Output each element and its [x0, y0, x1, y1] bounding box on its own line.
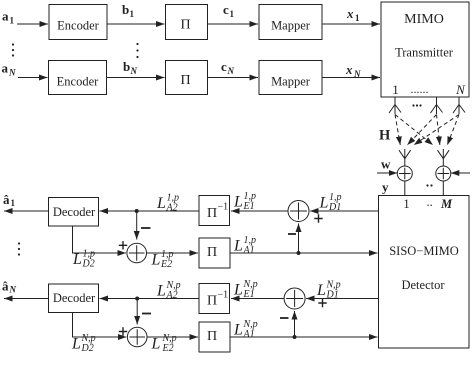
plus sign adder R1	[314, 214, 322, 222]
plus sign adder LN	[119, 327, 127, 335]
wire interleaver N to detector	[230, 336, 378, 338]
rx antenna 1	[399, 149, 411, 167]
minus sign row1 right	[288, 233, 296, 235]
node aN label	[2, 61, 17, 78]
wire aN to Encoder2	[18, 77, 48, 79]
encoder (row 1)	[49, 5, 107, 40]
svg-text:L: L	[156, 283, 166, 300]
wire junction down to adder LN	[136, 299, 138, 325]
svg-text:â: â	[3, 192, 10, 207]
ellipsis dots left column	[12, 43, 14, 56]
wire adder RN to deinterleaver N	[231, 298, 284, 300]
wire detector to adder RN	[306, 298, 379, 300]
svg-text:Π: Π	[207, 206, 217, 221]
svg-text:Encoder: Encoder	[57, 19, 99, 33]
noise adder 1	[397, 166, 412, 181]
svg-text:x: x	[345, 62, 353, 77]
label LA1 Np	[233, 319, 258, 340]
tx antenna 2	[431, 97, 443, 114]
svg-text:A2: A2	[166, 203, 178, 214]
channel dashed wire tx1-rx1	[395, 115, 400, 146]
svg-text:M: M	[440, 197, 453, 211]
node x1 label	[346, 6, 360, 23]
channel dashed wire tx2-rx2	[437, 115, 440, 146]
svg-text:L: L	[316, 282, 326, 299]
svg-text:L: L	[151, 336, 161, 353]
label LA2 Np	[156, 280, 181, 301]
ellipsis dots decoder column	[18, 242, 20, 255]
svg-text:Encoder: Encoder	[57, 75, 99, 89]
svg-text:−1: −1	[218, 290, 229, 301]
decoder (row N)	[49, 284, 99, 313]
svg-text:L: L	[233, 282, 243, 299]
svg-text:E1: E1	[243, 289, 255, 300]
wire junction up to adder R1	[298, 224, 300, 254]
minus sign rowN right	[280, 317, 289, 319]
MIMO transmitter box	[381, 2, 469, 97]
svg-text:y: y	[382, 180, 389, 195]
label LA1 1p	[233, 235, 256, 256]
svg-text:L: L	[71, 336, 81, 353]
wire deinterleaver to decoder N	[100, 298, 200, 300]
svg-text:L: L	[233, 322, 243, 339]
tx antenna dots	[412, 104, 421, 106]
noise adder 2	[436, 166, 451, 181]
interleaver fb (row 1)	[199, 238, 230, 268]
label LA2 1p	[156, 193, 179, 214]
wire c1	[208, 23, 259, 25]
wire interleaver 1 to detector	[230, 252, 378, 254]
channel dashed wire tx1-rx2	[395, 115, 433, 146]
svg-text:Π: Π	[180, 73, 190, 88]
svg-text:..: ..	[427, 195, 433, 209]
svg-text:1: 1	[403, 197, 409, 211]
node cN label	[221, 59, 235, 76]
wire x1	[322, 23, 380, 25]
rx antenna 2	[438, 149, 450, 167]
channel dashed wire tx2-rx1	[407, 115, 436, 146]
svg-text:D2: D2	[81, 343, 94, 354]
svg-text:Transmitter: Transmitter	[395, 46, 454, 60]
svg-text:Π: Π	[207, 329, 217, 344]
decoder (row 1)	[49, 198, 99, 227]
wire decoder N output	[4, 298, 49, 300]
svg-text:b: b	[123, 59, 130, 74]
wire adder R1 to deinterleaver 1	[231, 210, 288, 212]
tx antenna 1	[389, 97, 401, 114]
svg-text:â: â	[2, 279, 9, 294]
svg-text:N: N	[8, 68, 16, 78]
wire adder LN to interleaver N	[147, 336, 198, 338]
wire adder2 to detector	[442, 181, 444, 196]
svg-text:L: L	[156, 195, 166, 212]
svg-text:1: 1	[355, 13, 360, 23]
interleaver fb (row N)	[199, 322, 230, 352]
adder L1	[127, 243, 147, 263]
svg-text:1: 1	[10, 16, 15, 26]
svg-text:1: 1	[130, 9, 135, 19]
svg-text:1: 1	[11, 198, 16, 208]
plus sign adder RN	[318, 299, 326, 307]
svg-text:L: L	[233, 194, 243, 211]
wire xN	[322, 77, 380, 79]
node xN label	[345, 62, 361, 79]
junction dot rowN upper	[135, 297, 139, 301]
node c1 label	[223, 2, 235, 19]
svg-text:D2: D2	[82, 259, 95, 270]
svg-text:A1: A1	[243, 245, 255, 256]
svg-text:E2: E2	[162, 343, 174, 354]
svg-text:A2: A2	[166, 290, 178, 301]
wire w to adder1	[377, 172, 397, 174]
encoder (row N)	[49, 61, 107, 95]
wire w to adder2	[451, 172, 470, 174]
mapper (row 1)	[259, 5, 322, 40]
svg-text:Detector: Detector	[401, 278, 445, 292]
subtract adder R1	[288, 201, 309, 222]
channel dashed wire tx3-rx2	[447, 115, 459, 146]
plus sign adder L1	[119, 241, 127, 249]
svg-text:Decoder: Decoder	[53, 291, 96, 305]
wire a1 to Encoder1	[17, 23, 48, 25]
junction dot row1 lower	[297, 251, 301, 255]
svg-text:Decoder: Decoder	[53, 205, 96, 219]
ellipsis dots b column	[136, 43, 138, 58]
label LD2 1p	[72, 249, 95, 270]
deinterleaver (row 1)	[199, 196, 230, 226]
svg-text:E1: E1	[243, 201, 255, 212]
wire junction down to adder L1	[136, 211, 138, 240]
wire deinterleaver to decoder 1	[100, 210, 200, 212]
node a1 label	[2, 9, 15, 26]
label LD1 1p	[319, 192, 342, 213]
tx antenna 3	[453, 97, 465, 114]
wire decoder tap to adder LN	[73, 313, 127, 338]
svg-text:L: L	[319, 195, 329, 212]
label LD1 Np	[316, 280, 341, 301]
wire cN	[208, 77, 259, 79]
label LE1 Np	[233, 279, 258, 300]
svg-text:D1: D1	[328, 202, 341, 213]
svg-text:c: c	[223, 2, 229, 17]
svg-text:a: a	[2, 61, 9, 76]
svg-text:N: N	[130, 66, 138, 76]
svg-text:N: N	[455, 82, 466, 97]
wire junction up to adder RN	[294, 311, 296, 337]
svg-text:Mapper: Mapper	[271, 19, 311, 33]
interleaver P2 (row N)	[166, 61, 208, 95]
svg-text:A1: A1	[243, 329, 255, 340]
channel dashed wire tx3-rx1	[414, 115, 459, 146]
svg-text:N: N	[9, 285, 17, 295]
wire detector to adder R1	[310, 210, 379, 212]
svg-text:1: 1	[230, 9, 235, 19]
svg-text:Π: Π	[180, 18, 190, 33]
svg-text:b: b	[122, 2, 129, 17]
minus sign row1 left	[141, 227, 151, 229]
subtract adder RN	[284, 288, 305, 309]
minus sign rowN left	[142, 313, 151, 315]
label LE2 1p	[151, 249, 174, 270]
svg-text:H: H	[379, 128, 391, 144]
svg-text:w: w	[381, 157, 391, 172]
node bN label	[123, 59, 138, 76]
node b1 label	[122, 2, 135, 19]
svg-text:L: L	[72, 251, 82, 268]
adder LN	[127, 327, 147, 347]
deinterleaver (row N)	[199, 284, 230, 314]
svg-text:Mapper: Mapper	[271, 75, 311, 89]
wire b1	[107, 23, 165, 25]
junction dot row1 upper	[135, 209, 139, 213]
svg-text:c: c	[221, 59, 227, 74]
svg-text:Π: Π	[207, 294, 217, 309]
wire adder L1 to interleaver 1	[147, 252, 199, 254]
label LE1 1p	[233, 191, 256, 212]
svg-text:L: L	[233, 238, 243, 255]
SISO-MIMO detector box	[379, 195, 470, 348]
svg-text:E2: E2	[160, 259, 172, 270]
node a1hat label	[3, 192, 16, 208]
svg-text:x: x	[346, 6, 354, 21]
label LD2 Np	[71, 333, 96, 354]
wire bN	[107, 77, 165, 79]
svg-text:MIMO: MIMO	[404, 12, 444, 27]
svg-text:N: N	[353, 69, 361, 79]
svg-text:N: N	[227, 66, 235, 76]
svg-text:D1: D1	[326, 290, 339, 301]
interleaver P1 (row 1)	[166, 5, 208, 40]
svg-text:−1: −1	[218, 202, 229, 213]
junction dot rowN lower	[293, 335, 297, 339]
svg-text:SISO−MIMO: SISO−MIMO	[389, 244, 459, 258]
label LE2 Np	[151, 333, 177, 354]
svg-text:Π: Π	[207, 245, 217, 260]
wire decoder 1 output	[4, 210, 49, 212]
svg-text:a: a	[2, 9, 9, 24]
svg-text:1: 1	[392, 82, 399, 97]
wire adder1 to detector	[404, 181, 406, 196]
mapper (row N)	[259, 61, 322, 95]
svg-text:......: ......	[411, 82, 429, 96]
node aNhat label	[2, 279, 17, 295]
wire decoder tap to adder L1	[73, 226, 126, 253]
svg-text:L: L	[151, 252, 161, 269]
rx dots	[426, 184, 432, 186]
